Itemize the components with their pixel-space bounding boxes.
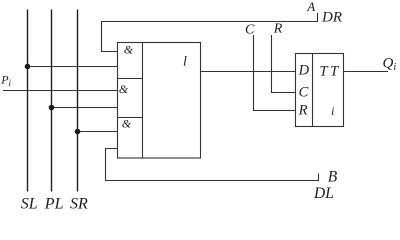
svg-text:l: l xyxy=(183,55,187,70)
svg-text:C: C xyxy=(299,85,309,101)
wire Q output xyxy=(344,71,389,73)
svg-text:Qi: Qi xyxy=(383,55,397,73)
svg-text:A: A xyxy=(306,0,315,14)
wire PL vertical input line xyxy=(51,10,53,192)
flip-flop U1 TT outline xyxy=(296,54,344,127)
svg-text:TT: TT xyxy=(320,64,341,80)
svg-text:Pi: Pi xyxy=(0,73,11,89)
svg-text:&: & xyxy=(124,43,134,57)
node junction dot on SR xyxy=(75,129,81,135)
wire C net down to R pin xyxy=(254,35,296,111)
svg-text:R: R xyxy=(273,22,283,37)
wire OR output to D input xyxy=(201,71,296,73)
svg-text:SL: SL xyxy=(21,196,38,213)
wire Pi input xyxy=(3,90,118,92)
AND section divider 2 xyxy=(118,117,143,119)
wire PL to AND section 2 xyxy=(52,107,118,109)
svg-text:i: i xyxy=(331,104,334,118)
svg-text:&: & xyxy=(122,117,132,131)
wire DL from node B up to AND section 3 xyxy=(106,149,319,181)
svg-text:R: R xyxy=(298,103,308,119)
wire R net down to C pin xyxy=(272,35,296,93)
svg-text:B: B xyxy=(328,169,338,186)
wire SL vertical input line xyxy=(27,10,29,192)
wire SL to AND section 1 xyxy=(28,66,118,68)
svg-text:DR: DR xyxy=(321,10,342,26)
svg-text:DL: DL xyxy=(313,185,334,202)
svg-text:SR: SR xyxy=(70,196,88,213)
AND section divider 1 xyxy=(118,78,143,80)
wire SR to AND section 3 xyxy=(78,131,118,133)
wire SR vertical input line xyxy=(77,10,79,192)
node junction dot on PL xyxy=(49,105,55,111)
svg-text:PL: PL xyxy=(44,196,64,213)
and-or gate DD1 outline xyxy=(118,43,201,159)
flip-flop U1 inner divider xyxy=(312,54,314,127)
and-or gate DD1 inner vertical divider xyxy=(142,43,144,159)
svg-text:D: D xyxy=(298,63,310,79)
svg-text:C: C xyxy=(245,23,255,38)
svg-text:&: & xyxy=(119,82,129,96)
wire DR feedback from node A down to AND section 1 xyxy=(102,13,318,52)
node junction dot on SL xyxy=(25,64,31,70)
